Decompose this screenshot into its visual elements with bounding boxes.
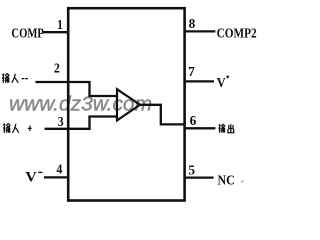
pin 7 label V+ (positive supply) (217, 74, 226, 90)
pin 1 number (57, 16, 63, 32)
pin 5 wire (184, 176, 214, 178)
svg-text:3: 3 (58, 113, 64, 129)
pin 3 wire (45, 128, 68, 130)
svg-text:7: 7 (188, 64, 195, 79)
wire pin 2 to op-amp inverting input (68, 82, 116, 96)
pin 6 wire (184, 127, 215, 129)
svg-text:NC: NC (218, 172, 235, 188)
svg-text:8: 8 (189, 16, 196, 31)
pin 6 number (190, 113, 197, 128)
pin 2 label 输入- (inverting input) (2, 73, 28, 83)
pin 7 wire (184, 80, 214, 82)
pin 6 label 输出 (output) (218, 124, 233, 133)
pin 7 number (188, 64, 195, 79)
pin 8 label COMP2 (217, 25, 257, 40)
op-amp A1 triangle (117, 89, 140, 120)
pin 2 wire (35, 81, 68, 83)
svg-text:6: 6 (190, 113, 197, 128)
svg-text:COMP: COMP (11, 25, 44, 41)
svg-text:V: V (217, 74, 226, 90)
op-amp output wire to pin 6 (139, 105, 184, 125)
pin 8 wire (184, 30, 215, 32)
svg-text:2: 2 (54, 60, 60, 76)
pin 5 label NC (218, 172, 235, 188)
pin 4 number (56, 160, 62, 176)
svg-text:1: 1 (57, 16, 63, 32)
wire pin 3 to op-amp noninverting input (68, 117, 116, 129)
svg-text:4: 4 (56, 160, 62, 176)
svg-text:V: V (25, 169, 37, 185)
svg-text:5: 5 (188, 162, 195, 177)
pin 1 label COMP (11, 25, 44, 41)
pin 4 wire (44, 176, 68, 178)
pin 3 number (58, 113, 64, 129)
svg-text:COMP2: COMP2 (217, 25, 257, 40)
IC U1 package outline (68, 8, 184, 200)
pin 4 label V- (negative supply) (25, 169, 37, 185)
pin 2 number (54, 60, 60, 76)
pin 3 label 输入+ (noninverting input) (3, 123, 32, 133)
pin 5 number (188, 162, 195, 177)
pin 8 number (189, 16, 196, 31)
pin 1 wire (43, 31, 68, 33)
